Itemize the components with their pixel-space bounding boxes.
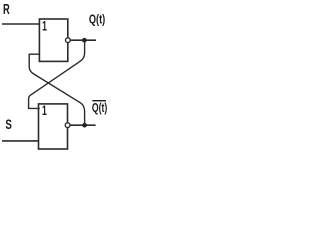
NOR gate U2 body [39,104,68,149]
wire feedback from Qbar to U1 input (vertical, elbow, diagonal, vertical, stub) [29,54,84,125]
junction dot Qbar node [82,123,87,128]
inversion bubble U2 [65,123,70,128]
svg-text:S: S [5,116,11,132]
NOR gate U1 body [39,19,67,61]
svg-text:R: R [3,2,10,18]
wire Q output [71,39,96,41]
wire R input [2,23,40,25]
inversion bubble U1 [66,38,71,43]
background [0,0,123,152]
output label Qbar(t) overline [92,100,106,102]
wire Qbar output [70,124,95,126]
svg-text:1: 1 [42,103,47,118]
wire feedback from Q to U2 input (vertical, elbow, diagonal, vertical, stub) [29,40,85,108]
svg-text:1: 1 [42,18,47,33]
junction dot Q node [82,38,87,43]
wire S input [2,140,39,142]
svg-text:Q(t): Q(t) [89,11,105,26]
svg-text:Q(t): Q(t) [92,100,107,115]
